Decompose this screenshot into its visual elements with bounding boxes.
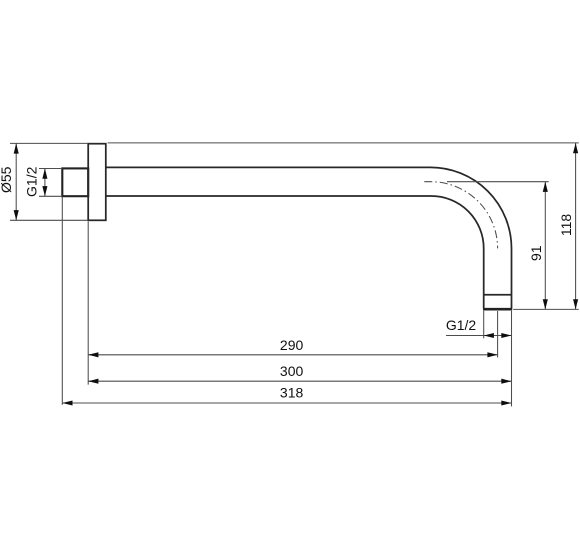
extension line: thread bottom to left (for G1/2) — [39, 195, 62, 197]
outlet centerline extension (below pipe, to 290 dim) — [497, 311, 499, 358]
wall thread G1/2 (left inlet) — [62, 168, 88, 196]
svg-text:G1/2: G1/2 — [446, 317, 477, 333]
dimension 118: line and arrows — [573, 143, 578, 310]
dimension G1/2 (outlet): line and arrows — [446, 333, 512, 338]
dimension 318: line and arrows — [62, 400, 511, 405]
extension line: tube centerline to right (for 91) — [447, 181, 549, 183]
extension line: pipe bottom to right (for 118 and 91) — [513, 308, 579, 310]
dimension Ø55: line and arrows — [14, 143, 19, 220]
svg-text:Ø55: Ø55 — [0, 166, 14, 193]
extension line: flange top to right (for 118) — [108, 142, 579, 144]
dimension Ø55: label — [0, 166, 14, 193]
dimension 290: line and arrows — [88, 352, 497, 357]
dimension 300: line and arrows — [88, 379, 511, 384]
extension line: flange left edge down (for 290 and 300) — [87, 221, 89, 384]
svg-text:300: 300 — [280, 363, 304, 379]
extension line: pipe left edge down (for G1/2 outlet dim) — [483, 311, 485, 339]
dimension 300: label — [280, 363, 304, 379]
dimension 290: label — [280, 337, 304, 353]
dimension 91: line and arrows — [543, 182, 548, 310]
svg-text:G1/2: G1/2 — [23, 166, 39, 197]
dimension 118: label — [558, 214, 574, 237]
extension line: thread top to left (for G1/2) — [39, 168, 62, 170]
extension line: flange top to left (for Ø55) — [10, 142, 88, 144]
shower arm tube outer contour (top line + outer bend + right edge) — [106, 167, 512, 308]
dimension G1/2 (inlet): label — [23, 166, 39, 197]
extension line: flange bottom to left (for Ø55) — [10, 219, 88, 221]
dimension G1/2 (outlet): label — [446, 317, 477, 333]
svg-text:118: 118 — [558, 214, 574, 237]
extension line: pipe right edge down (for 300 and 318) — [511, 311, 513, 407]
dimension 318: label — [280, 384, 304, 400]
outlet end cap (thick bottom edge) — [483, 308, 512, 311]
svg-text:91: 91 — [528, 245, 544, 261]
svg-text:290: 290 — [280, 337, 304, 353]
dimension 91: label — [528, 245, 544, 261]
outlet thread G1/2 boundary line — [484, 294, 512, 296]
extension line: wall thread left edge down (for 318) — [61, 197, 63, 405]
wall flange — [88, 144, 106, 221]
shower arm tube inner contour (bottom line + inner bend + left edge) — [106, 196, 484, 308]
svg-text:318: 318 — [280, 384, 304, 400]
dimension G1/2 (inlet): line and arrows — [42, 169, 47, 197]
bend centerline (dash-dot) — [424, 182, 497, 249]
